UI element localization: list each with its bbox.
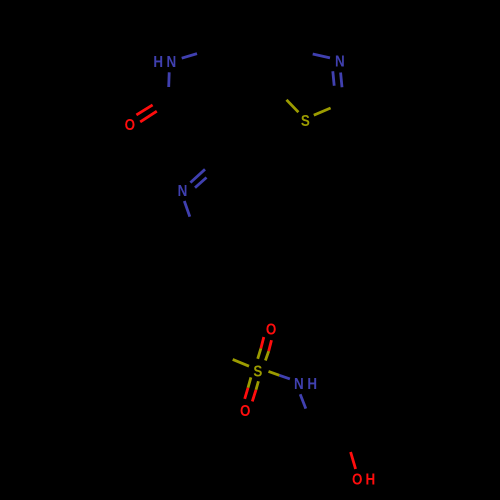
wire S=O top double bond right stroke red half xyxy=(269,340,272,351)
label HN of lactam xyxy=(153,54,176,71)
wire S=O bottom double bond right stroke olive half xyxy=(256,381,258,390)
wire thiazole N3=C2 double bond right line (blue half) xyxy=(341,73,342,88)
wire N1-CH2 (lactam N to carbon, blue half) xyxy=(182,54,197,59)
svg-text:H: H xyxy=(307,376,317,393)
svg-text:N: N xyxy=(294,376,304,393)
wire N1-C2 (lactam N down to carbonyl C, blue half) xyxy=(167,72,170,87)
wire thiazole S1-C2 (olive half) xyxy=(314,108,331,115)
svg-text:N: N xyxy=(335,54,345,71)
wire thiazole S1-C5 (olive half) xyxy=(287,100,299,112)
wire S=O top double bond left stroke olive half xyxy=(258,348,261,358)
wire CH2-OH (red half) xyxy=(351,452,356,469)
label NH of sulfonamide xyxy=(294,376,317,393)
wire thiazole N3-C4 (blue half) xyxy=(313,54,330,58)
wire imine N=C double bond inner line (blue half) xyxy=(195,178,207,188)
wire NH-CH2 (blue half) xyxy=(300,394,306,408)
svg-text:N: N xyxy=(167,54,177,71)
svg-text:S: S xyxy=(253,364,262,381)
wire S=O top double bond right stroke olive half xyxy=(265,351,268,360)
wire C2=O1 double bond lower line (red half) xyxy=(140,111,157,122)
wire imine N=C double bond outer line (blue half) xyxy=(190,169,205,182)
wire sulfonyl S-C (olive half) xyxy=(233,359,249,366)
wire S=O top double bond left stroke red half xyxy=(261,337,264,348)
wire thiazole N3=C2 double bond left line (blue half) xyxy=(333,71,334,86)
wire S=O bottom double bond right stroke red half xyxy=(252,390,256,402)
wire S=O bottom double bond left stroke olive half xyxy=(248,377,251,387)
svg-text:O: O xyxy=(240,403,250,420)
svg-text:O: O xyxy=(352,472,362,489)
svg-text:H: H xyxy=(366,472,376,489)
wire S=O bottom double bond left stroke red half xyxy=(245,388,248,399)
svg-text:N: N xyxy=(178,183,188,200)
svg-text:O: O xyxy=(266,322,276,339)
wire C2=O1 double bond upper line (red half) xyxy=(136,105,152,115)
svg-text:S: S xyxy=(301,113,310,130)
label OH hydroxyl xyxy=(352,472,375,489)
wire S-N sulfonamide (olive half) xyxy=(269,371,280,375)
svg-text:H: H xyxy=(153,54,163,71)
svg-text:O: O xyxy=(125,117,135,134)
wire S-N sulfonamide (blue half) xyxy=(279,375,290,379)
wire imine N-C single bond down (blue half) xyxy=(184,201,190,217)
